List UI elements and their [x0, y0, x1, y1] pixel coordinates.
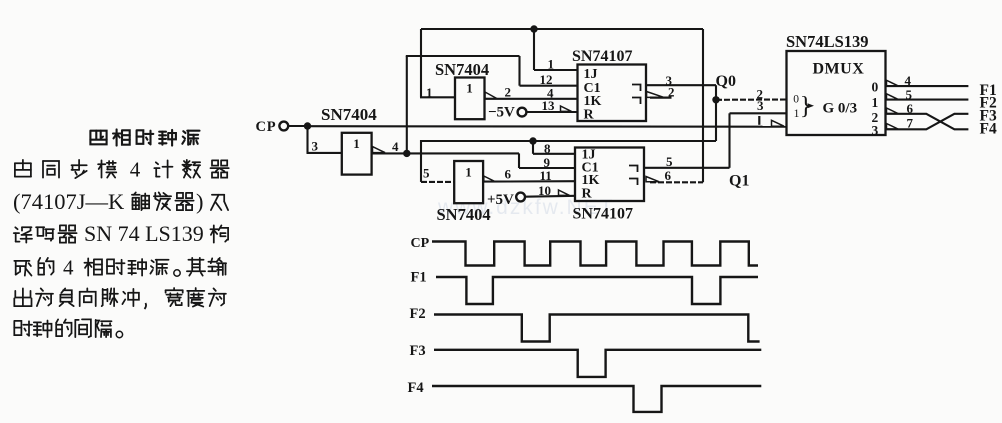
svg-text:SN7404: SN7404 — [435, 60, 489, 79]
svg-text:SN7404: SN7404 — [437, 205, 491, 224]
wire junction down to lower FF 1J pin 8 — [533, 141, 576, 154]
svg-text:F2: F2 — [410, 306, 426, 322]
svg-text:6: 6 — [505, 167, 512, 182]
caption line 5 出为负向脉冲，宽度为 — [14, 288, 226, 309]
svg-text:2: 2 — [668, 85, 675, 100]
DMUX output 2 wedge — [887, 108, 899, 114]
inverter U1B (SN7404 gate, pins 1-2) — [455, 78, 497, 120]
svg-text:13: 13 — [542, 98, 556, 113]
svg-text:6: 6 — [665, 168, 672, 183]
svg-text:SN 74 LS139: SN 74 LS139 — [84, 221, 204, 246]
svg-text:Q1: Q1 — [729, 173, 749, 190]
wire CP long line to DMUX G — [308, 125, 787, 128]
node 4 junction dot — [403, 150, 410, 157]
svg-text:4: 4 — [905, 73, 912, 88]
timing waveform CP — [432, 242, 758, 266]
svg-text:−5V: −5V — [488, 105, 515, 121]
svg-text:R: R — [584, 108, 595, 123]
wire U1C output pin 6 to lower FF 1K pin 11 — [484, 180, 576, 183]
svg-text:1: 1 — [872, 95, 879, 110]
svg-text:5: 5 — [423, 166, 430, 181]
wire U1A output (node 4, inverted CP) — [372, 152, 519, 154]
caption line 3 译码器 SN 74 LS139 构 — [14, 221, 228, 246]
wire CP to junction — [288, 125, 307, 127]
svg-text:F3: F3 — [410, 343, 426, 359]
svg-text:0: 0 — [872, 80, 879, 95]
wire -5V to top FF R pin 13 — [526, 111, 577, 113]
caption line 1 由同步模4计数器 — [15, 158, 229, 182]
timing waveform F1 — [436, 277, 758, 304]
svg-text:+5V: +5V — [487, 192, 514, 208]
timing waveform F2 — [434, 315, 760, 342]
power terminal -5V — [488, 105, 526, 121]
caption line 2 (74107J—K 触发器) 及 — [13, 189, 228, 214]
svg-text:3: 3 — [312, 139, 319, 154]
DMUX output 3 wedge — [887, 124, 899, 130]
flip-flop U2A SN74107 (top) — [578, 65, 647, 123]
lower FF Qbar output pin 6 with wedge to feedback riser — [646, 177, 703, 183]
wire Qbar1 feedback top line — [421, 29, 703, 182]
node junction on top line — [530, 25, 537, 32]
wire Q0 feedback down-left to lower section — [421, 140, 716, 182]
svg-text:1: 1 — [465, 165, 472, 180]
wire U1B output pin2 to top FF 1K pin 4 — [485, 98, 578, 100]
svg-text:SN7404: SN7404 — [321, 105, 377, 124]
svg-text:SN74107: SN74107 — [572, 48, 632, 65]
svg-text:): ) — [196, 189, 204, 214]
svg-text:11: 11 — [540, 168, 552, 183]
timing waveform F4 — [432, 386, 761, 412]
wire top-line down to inverter U1B input pin 1 — [420, 96, 455, 98]
svg-text:SN74LS139: SN74LS139 — [786, 32, 869, 51]
svg-text:1: 1 — [426, 85, 433, 100]
svg-text:F4: F4 — [408, 380, 424, 396]
svg-text:DMUX: DMUX — [813, 61, 865, 78]
svg-text:5: 5 — [666, 154, 673, 169]
wire +5V to lower FF R pin 10 — [525, 195, 576, 198]
inverter U1A (SN7404 gate, pins 3-4) — [342, 133, 385, 175]
wire DMUX output 0 (pin 4) to F1 — [887, 85, 969, 87]
svg-text:6: 6 — [907, 101, 914, 116]
svg-text:10: 10 — [538, 183, 551, 198]
wedge on DMUX G input — [772, 120, 785, 126]
svg-text:CP: CP — [256, 119, 277, 135]
wedge on R input (lower FF) — [559, 190, 570, 195]
wire DMUX output 3 (pin 7) crossing to F3 — [887, 114, 969, 130]
svg-text:R: R — [582, 187, 593, 202]
pin 1 label (DMUX G) — [758, 116, 760, 125]
wire DMUX output 1 (pin 5) to F2 — [887, 99, 969, 101]
svg-text:(74107J—K: (74107J—K — [13, 189, 125, 214]
wire DMUX output 2 (pin 6) crossing to F4 — [887, 114, 969, 130]
svg-text:CP: CP — [411, 236, 430, 251]
power terminal +5V — [487, 192, 525, 208]
svg-text:Q0: Q0 — [716, 73, 736, 90]
DMUX output 0 wedge — [887, 80, 899, 86]
svg-text:SN74107: SN74107 — [573, 206, 633, 223]
caption line 6 时钟的间隔。 — [14, 319, 122, 337]
svg-text:2: 2 — [505, 84, 512, 99]
wire node4 step down to lower FF clock C1 pin 9 — [519, 153, 576, 168]
svg-text:8: 8 — [544, 141, 551, 156]
inverter U1C (SN7404 gate, pins 5-6) — [454, 161, 495, 203]
svg-text:4: 4 — [130, 158, 141, 182]
wire Q0 to DMUX select A pin 2 — [716, 98, 787, 100]
svg-text:3: 3 — [872, 123, 879, 138]
flip-flop U2B SN74107 (bottom) — [575, 148, 644, 202]
caption title 四相时钟源 — [90, 129, 199, 145]
caption line 4 成的4相时钟源。其输 — [14, 256, 226, 280]
node CP input terminal — [256, 119, 289, 135]
svg-text:F1: F1 — [411, 270, 427, 286]
wire junction down to top FF 1J pin 1 — [534, 29, 578, 70]
svg-text:4: 4 — [392, 139, 399, 154]
timing waveform F3 — [434, 350, 761, 377]
svg-text:1: 1 — [548, 57, 555, 72]
decoder U3 SN74LS139 (DMUX) — [787, 51, 886, 138]
svg-text:G 0/3: G 0/3 — [823, 101, 858, 117]
node CP junction — [304, 122, 311, 129]
wire Q1 to DMUX select B pin 3 — [730, 112, 787, 114]
wire CP junction down to inverter U1A input pin 3 — [307, 126, 342, 153]
svg-text:1: 1 — [353, 136, 360, 151]
wire top FF Q output pin 3 to node Q0 — [646, 85, 716, 141]
node Q0 junction dot — [712, 96, 719, 103]
DMUX output 1 wedge — [887, 94, 899, 100]
svg-text:3: 3 — [757, 98, 764, 113]
svg-text:1: 1 — [466, 81, 473, 96]
svg-text:4: 4 — [63, 256, 74, 280]
svg-text:1J: 1J — [584, 67, 598, 82]
wire lower FF Q output pin 5 to node Q1 riser — [644, 113, 730, 168]
top FF Qbar output pin 2 stub with wedge — [647, 92, 672, 98]
svg-text:0: 0 — [793, 94, 799, 106]
node junction dot on Q0 feedback — [529, 137, 536, 144]
svg-text:7: 7 — [907, 116, 914, 131]
wire node4 up-feed to top FF clock C1 pin 12 — [406, 56, 578, 153]
svg-text:5: 5 — [906, 87, 913, 102]
svg-text:1: 1 — [794, 108, 800, 120]
svg-text:F4: F4 — [980, 120, 997, 137]
wedge on R input (top FF) — [561, 106, 572, 111]
